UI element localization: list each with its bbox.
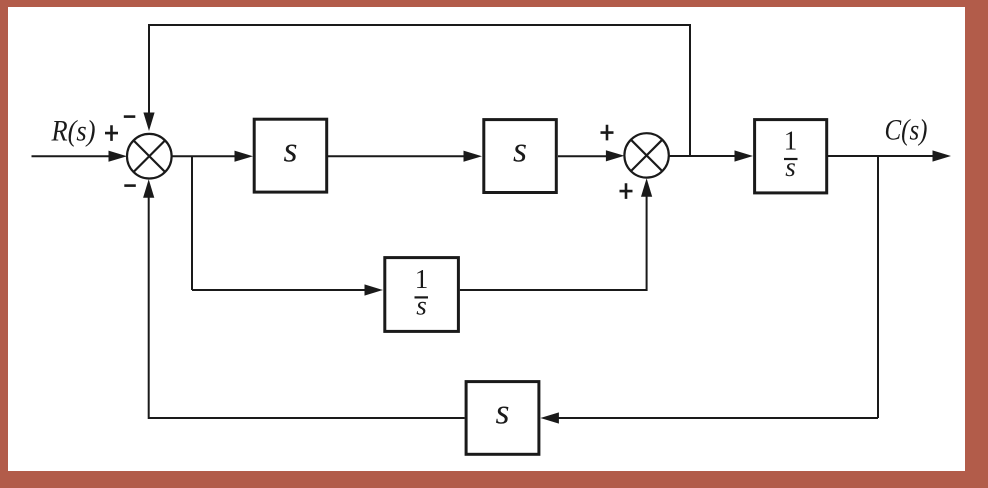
sign − at S1 top input <box>124 115 136 118</box>
block G3 (1/s) <box>755 120 827 193</box>
arrowhead down into S1 top <box>143 113 154 132</box>
svg-text:s: s <box>513 130 527 170</box>
wire: bottom feedback right segment <box>556 417 878 419</box>
block H1 (s) bottom feedback <box>466 382 539 455</box>
summing junction S2 <box>624 133 668 177</box>
sign − at S1 bottom input <box>124 184 136 187</box>
arrowhead into bottom block H1 (left) <box>540 412 559 423</box>
svg-text:R(s): R(s) <box>51 114 96 147</box>
svg-text:s: s <box>495 392 509 432</box>
wire: takeoff after S1 down <box>191 156 193 290</box>
wire: R(s) input line <box>32 155 113 157</box>
arrowhead into G2 (right) <box>464 151 483 162</box>
arrowhead into S1 (right) <box>109 151 128 162</box>
wire: G2 to S2 <box>558 155 609 157</box>
arrowhead output C(s) (right) <box>933 150 952 161</box>
sign + at S2 left input <box>601 125 614 141</box>
svg-text:s: s <box>785 152 796 182</box>
svg-text:1: 1 <box>784 126 798 156</box>
block G1 (s) <box>254 119 327 192</box>
arrowhead up into S2 bottom <box>641 178 652 197</box>
arrowhead into middle block G4 (right) <box>365 284 384 295</box>
sign + at S2 bottom input <box>620 183 633 199</box>
arrowhead up into S1 bottom <box>143 179 154 198</box>
svg-text:s: s <box>283 130 297 170</box>
wire: middle row to S2 bottom <box>460 195 647 290</box>
wire: G1 to G2 <box>328 155 467 157</box>
wire: top feedback (tap up and across) <box>149 25 690 156</box>
summing junction S1 <box>127 134 172 179</box>
wire: output takeoff down <box>877 156 879 418</box>
arrowhead into G1 (right) <box>235 151 254 162</box>
arrowhead into G3 (right) <box>735 150 754 161</box>
wire: S2 to G3 <box>669 155 738 157</box>
block G2 (s) <box>484 120 557 193</box>
wire: S1 to block G1 <box>171 155 238 157</box>
svg-text:C(s): C(s) <box>885 113 928 146</box>
block G4 (1/s) middle feedforward <box>385 258 459 332</box>
wire: G3 to output <box>828 155 935 157</box>
wire: bottom feedback left segment and up to S1 <box>149 196 465 418</box>
svg-text:s: s <box>416 290 427 320</box>
arrowhead into S2 left (right) <box>606 150 625 161</box>
sign + at S1 left input <box>105 125 118 141</box>
wire: takeoff to middle block G4 <box>192 289 368 291</box>
